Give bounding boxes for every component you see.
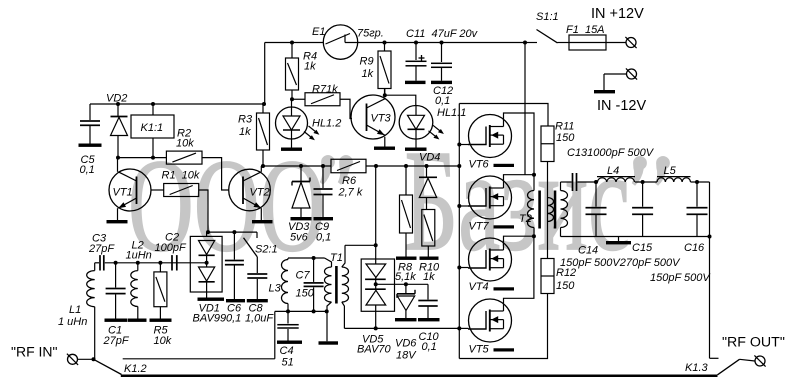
svg-text:VT5: VT5 bbox=[469, 344, 490, 356]
svg-text:VD2: VD2 bbox=[106, 93, 127, 105]
svg-text:27pF: 27pF bbox=[88, 243, 115, 255]
svg-text:VT6: VT6 bbox=[469, 159, 490, 171]
svg-text:150: 150 bbox=[296, 288, 315, 300]
svg-text:K1.2: K1.2 bbox=[124, 363, 147, 375]
svg-text:150: 150 bbox=[556, 132, 575, 144]
svg-text:C4: C4 bbox=[280, 345, 294, 357]
svg-text:HL1.1: HL1.1 bbox=[437, 107, 466, 119]
svg-text:VT3: VT3 bbox=[371, 113, 392, 125]
svg-text:F1 15A: F1 15A bbox=[566, 24, 605, 36]
svg-text:10k: 10k bbox=[176, 138, 194, 150]
svg-text:R9: R9 bbox=[360, 56, 374, 68]
svg-text:E1: E1 bbox=[312, 26, 325, 38]
svg-text:1,0uF: 1,0uF bbox=[245, 313, 274, 325]
svg-text:S1:1: S1:1 bbox=[536, 11, 559, 23]
svg-text:HL1.2: HL1.2 bbox=[312, 118, 341, 130]
svg-text:51: 51 bbox=[282, 357, 294, 369]
svg-text:C14: C14 bbox=[578, 245, 598, 257]
svg-text:27pF: 27pF bbox=[103, 335, 130, 347]
svg-text:1 uHn: 1 uHn bbox=[58, 316, 87, 328]
svg-text:K1.3: K1.3 bbox=[685, 362, 709, 374]
svg-text:75гр.: 75гр. bbox=[357, 28, 384, 40]
svg-text:0,1: 0,1 bbox=[80, 164, 95, 176]
svg-text:VT7: VT7 bbox=[469, 221, 490, 233]
svg-text:100pF: 100pF bbox=[155, 242, 187, 254]
svg-text:L3: L3 bbox=[269, 283, 282, 295]
svg-text:150pF 500V: 150pF 500V bbox=[650, 272, 711, 284]
svg-text:VD4: VD4 bbox=[419, 152, 440, 164]
svg-text:1k: 1k bbox=[239, 126, 251, 138]
svg-text:K1:1: K1:1 bbox=[141, 122, 164, 134]
svg-text:C131000pF 500V: C131000pF 500V bbox=[567, 147, 655, 159]
svg-text:R6: R6 bbox=[342, 175, 357, 187]
svg-text:VT2: VT2 bbox=[250, 187, 270, 199]
svg-text:R1 10k: R1 10k bbox=[162, 170, 200, 182]
svg-text:1uHn: 1uHn bbox=[126, 250, 152, 262]
svg-text:0,1: 0,1 bbox=[422, 341, 437, 353]
svg-text:0,1: 0,1 bbox=[435, 95, 450, 107]
svg-text:1k: 1k bbox=[362, 68, 374, 80]
svg-text:5v6: 5v6 bbox=[290, 232, 309, 244]
svg-text:C15: C15 bbox=[632, 242, 653, 254]
svg-text:BAV99: BAV99 bbox=[193, 313, 227, 325]
svg-text:2,7 k: 2,7 k bbox=[338, 187, 363, 199]
svg-text:VT4: VT4 bbox=[469, 281, 489, 293]
svg-text:150pF 500V270pF 500V: 150pF 500V270pF 500V bbox=[560, 257, 681, 269]
svg-text:L4: L4 bbox=[607, 165, 619, 177]
svg-text:0,1: 0,1 bbox=[226, 313, 241, 325]
svg-text:150: 150 bbox=[556, 280, 575, 292]
svg-text:T1: T1 bbox=[330, 252, 343, 264]
svg-text:5,1k: 5,1k bbox=[395, 271, 416, 283]
svg-text:"RF OUT": "RF OUT" bbox=[722, 335, 785, 351]
svg-text:18V: 18V bbox=[396, 350, 417, 362]
svg-text:VT1: VT1 bbox=[113, 187, 133, 199]
svg-text:VD6: VD6 bbox=[395, 338, 417, 350]
svg-text:T2: T2 bbox=[519, 213, 532, 225]
svg-text:L1: L1 bbox=[69, 304, 81, 316]
svg-text:BAV70: BAV70 bbox=[357, 344, 392, 356]
svg-text:IN -12V: IN -12V bbox=[597, 98, 646, 114]
svg-text:10k: 10k bbox=[154, 335, 172, 347]
svg-text:C7: C7 bbox=[296, 270, 311, 282]
svg-text:R3: R3 bbox=[238, 114, 253, 126]
svg-text:R71k: R71k bbox=[312, 84, 338, 96]
svg-text:L5: L5 bbox=[664, 165, 677, 177]
svg-text:C16: C16 bbox=[684, 242, 705, 254]
svg-text:0,1: 0,1 bbox=[316, 232, 331, 244]
svg-text:R11: R11 bbox=[555, 121, 574, 133]
svg-text:C11 47uF 20v: C11 47uF 20v bbox=[406, 28, 479, 40]
svg-text:S2:1: S2:1 bbox=[255, 244, 278, 256]
svg-text:"RF IN": "RF IN" bbox=[11, 344, 58, 360]
svg-text:ООО: ООО bbox=[128, 132, 325, 279]
svg-text:1k: 1k bbox=[423, 271, 435, 283]
svg-text:1k: 1k bbox=[304, 61, 316, 73]
svg-text:IN +12V: IN +12V bbox=[591, 6, 644, 22]
